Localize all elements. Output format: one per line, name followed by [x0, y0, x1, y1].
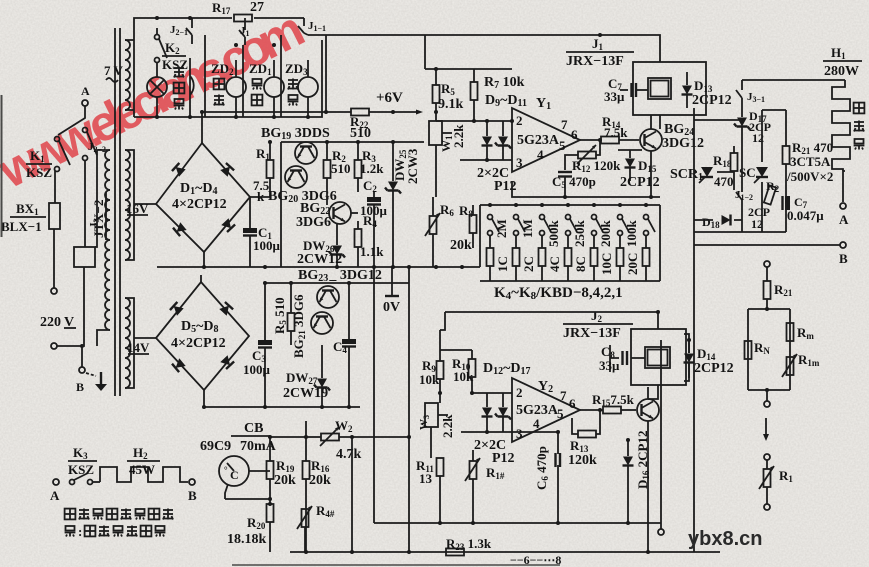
svg-text:P12: P12 [494, 179, 517, 194]
zener DW25 [385, 142, 401, 267]
relay contact J3-1 [736, 80, 765, 105]
junction 0V rail [434, 265, 438, 269]
svg-text:10k: 10k [453, 369, 474, 384]
potentiometer W3 [425, 403, 448, 458]
resistor R23 [446, 549, 464, 556]
resistor R15 [603, 407, 636, 414]
diode D14 [684, 340, 695, 378]
wire 7V winding to panel [125, 40, 134, 110]
op-amp Y2 [512, 378, 580, 442]
svg-text:3CT5A: 3CT5A [790, 154, 831, 169]
svg-text:JRX−13F: JRX−13F [563, 326, 621, 341]
diode D17 [734, 105, 750, 140]
transistor BG21a [317, 286, 339, 308]
svg-text:510: 510 [350, 126, 371, 141]
svg-text:A: A [839, 212, 849, 227]
diode D16 [623, 440, 634, 523]
svg-text:500k: 500k [546, 220, 561, 248]
svg-text:2: 2 [516, 113, 523, 128]
label 14V [127, 340, 150, 355]
op-amp Y1 [512, 108, 580, 172]
thyristor SCR1 [699, 167, 713, 183]
junction R16 top [304, 435, 308, 439]
svg-text:10C: 10C [599, 253, 614, 275]
wire bridge right vertex up [250, 197, 270, 210]
label R4 1.1k [360, 213, 384, 259]
0V rail [157, 266, 480, 268]
zener DW26 [329, 224, 345, 267]
svg-text:70mA: 70mA [240, 439, 277, 454]
label alarm (CJK) [214, 79, 225, 106]
thermometer CB [219, 456, 249, 499]
label R6 R8 20k [440, 202, 473, 253]
labels 500k 4C [546, 220, 562, 273]
lamp 7V indicator [147, 62, 167, 117]
220V upper terminal [51, 288, 57, 294]
labels 200k 10C [598, 220, 614, 276]
wire thermometer row [225, 471, 270, 499]
label D14 2CP12 [694, 346, 734, 376]
caption line1 (CJK x8) [65, 509, 173, 520]
label C2 100u [360, 178, 388, 218]
svg-text:B: B [839, 251, 848, 266]
wire bridge top to +6V rail [202, 112, 351, 143]
bridge2 diode 1 [170, 302, 184, 316]
svg-text:2CP12: 2CP12 [694, 361, 734, 376]
svg-text:4C: 4C [547, 256, 562, 272]
junction dots lower [202, 281, 769, 554]
label JTX-2 (vertical) [88, 192, 106, 240]
svg-text:ybx8.cn: ybx8.cn [688, 528, 762, 550]
right network box [748, 309, 790, 390]
bridge2 diode 2 [219, 302, 233, 316]
wire pin3 row [512, 431, 558, 433]
capacitor C7 (33u) [620, 83, 648, 97]
svg-text:2C: 2C [521, 256, 536, 272]
resistor Rn left branch [745, 341, 752, 359]
svg-text:5: 5 [557, 406, 564, 421]
indicator lamp ZD3 [298, 60, 318, 117]
label D13 2CP12 [692, 78, 732, 108]
resistor R16 [303, 437, 310, 552]
resistor Rj [764, 281, 771, 309]
svg-text:6: 6 [569, 396, 576, 411]
label H2/45W [127, 445, 160, 477]
bridge2 diode 3 [172, 358, 186, 372]
switch J2-2 on A line [83, 128, 98, 161]
svg-text:7.5k: 7.5k [604, 125, 628, 140]
svg-text:C5 470p: C5 470p [552, 174, 596, 190]
wire diode row to pin3 [461, 431, 512, 433]
indicator lamp ZD1 [264, 60, 284, 117]
scan artifact left edge [1, 95, 3, 237]
svg-text:D1~D4: D1~D4 [180, 181, 218, 197]
label W3 2.2k (vertical) [418, 414, 455, 438]
wire primary top [95, 150, 110, 247]
label R21 470 3CT5A /500Vx2 [786, 140, 833, 184]
capacitor C8 [610, 345, 627, 372]
junction at x326 [324, 110, 328, 114]
svg-text:B: B [188, 488, 197, 503]
label R22 510 [350, 114, 371, 141]
resistor R5 [433, 69, 440, 121]
labels 1M 2C [520, 219, 536, 272]
svg-text:KSZ: KSZ [68, 462, 94, 477]
svg-text:69C9: 69C9 [200, 439, 231, 454]
svg-text:D16 2CP12: D16 2CP12 [635, 431, 651, 489]
diode D15 [618, 150, 642, 181]
svg-text:4×2CP12: 4×2CP12 [172, 197, 227, 212]
svg-text:8C: 8C [573, 256, 588, 272]
svg-text:k: k [257, 189, 265, 204]
svg-text:A: A [81, 84, 90, 98]
wire x352 [350, 435, 354, 552]
scan artifact bottom line [232, 564, 560, 566]
top indicator panel outline [134, 18, 322, 117]
svg-text:1.1k: 1.1k [360, 244, 384, 259]
label K3/KSZ [68, 445, 97, 477]
heater H2 rectangular element [100, 467, 188, 482]
capacitor C3 [258, 283, 272, 407]
wire diode bottoms to pin3 [460, 159, 512, 161]
wire K1 to fuse [54, 171, 56, 203]
capacitor C6 [556, 432, 561, 523]
svg-text:1.2k: 1.2k [360, 161, 384, 176]
zener D10 [495, 121, 511, 160]
resistor R20 [764, 185, 776, 204]
diode D13 [682, 72, 693, 108]
svg-text:R7 10k: R7 10k [484, 75, 525, 91]
svg-text:100μ: 100μ [253, 238, 281, 253]
svg-text:200k: 200k [598, 220, 613, 248]
label 220V [40, 315, 76, 330]
labels 2M 1C [494, 219, 510, 272]
svg-text:5G23A: 5G23A [516, 403, 559, 418]
label DW26 2CW12 [297, 238, 342, 267]
svg-text:27: 27 [250, 0, 264, 15]
svg-text:BG19 3DDS: BG19 3DDS [261, 126, 330, 142]
label BG24 3DG12 [662, 122, 704, 151]
svg-text:JRX−13F: JRX−13F [566, 54, 624, 69]
label K2/KSZ [162, 40, 188, 72]
labels 100k 20C [624, 220, 640, 276]
wire bridge2 top [200, 275, 202, 282]
ground (dashed lead) [86, 373, 96, 376]
svg-text:7 V: 7 V [104, 63, 124, 78]
heater element H1 zigzag [832, 80, 850, 171]
label 2CP12 for D18 [748, 205, 770, 231]
svg-text:1M: 1M [520, 219, 535, 238]
svg-text:3DG12: 3DG12 [662, 136, 704, 151]
relay contact J2-1 [170, 18, 192, 44]
label R17 value 27 [212, 0, 264, 16]
thermostat switch column 2 [513, 203, 526, 281]
svg-text:P12: P12 [492, 451, 515, 466]
transformer 16V winding [125, 150, 130, 260]
arrow link [763, 418, 769, 441]
wire 14V winding to bridge2 [125, 298, 156, 388]
svg-text:2CP12: 2CP12 [620, 175, 660, 190]
svg-text:2.2k: 2.2k [440, 414, 455, 438]
wire 16V winding to bridge left [125, 150, 156, 260]
transistor BG19 [295, 142, 317, 164]
pot Rp right branch [782, 354, 797, 377]
junction right network [765, 388, 769, 392]
resistor R17 [234, 15, 252, 22]
pot R6 temp-set [425, 197, 440, 267]
junction R5 top [434, 67, 438, 71]
wire top panel right drop [325, 35, 327, 112]
label R9 10k [419, 358, 440, 387]
standalone circuit: terminal A2 [50, 479, 60, 503]
zener D13b [495, 393, 511, 432]
label 7V~ [104, 63, 124, 82]
switch K2 [155, 28, 168, 63]
thermostat switch column 3 [539, 203, 552, 281]
terminal [764, 454, 770, 460]
resistor R7 [471, 69, 478, 121]
label K1/KSZ [26, 148, 52, 180]
relay J2 wiring [445, 312, 689, 399]
svg-text:120k: 120k [568, 453, 597, 468]
heater top wire [742, 79, 845, 81]
wire A to switch K1 [58, 106, 85, 135]
+6V rail with arrow [369, 110, 423, 115]
junction dots misc [268, 33, 653, 199]
svg-text:20k: 20k [450, 238, 472, 253]
resistor R18 [731, 146, 738, 190]
cell divider wires [205, 35, 281, 117]
resistor R13 [572, 410, 600, 438]
resistor Rm right branch [787, 323, 794, 341]
capacitor C5 [558, 172, 572, 197]
svg-text:4.7k: 4.7k [336, 447, 362, 462]
svg-text:9.1k: 9.1k [438, 97, 464, 112]
pin numbers Y1 [516, 113, 578, 170]
indicator lamp ZD2 [226, 60, 246, 117]
wire bridge2 bottom rail [204, 390, 360, 407]
node A (left input terminal) [81, 84, 90, 106]
svg-text:20C: 20C [625, 253, 640, 275]
svg-text:14V: 14V [127, 340, 150, 355]
svg-text:45W: 45W [129, 462, 155, 477]
svg-text:220: 220 [40, 315, 61, 330]
wire box to bottom junction [82, 267, 84, 346]
diode D18 [722, 215, 731, 226]
svg-text:4: 4 [533, 416, 540, 431]
wire W2 column [270, 421, 306, 437]
label R16 20k [309, 458, 331, 488]
node B terminal [79, 367, 85, 373]
label 2x2CP12 lower [474, 438, 515, 466]
resistor R1 [267, 142, 274, 197]
relay J1 label JRX-13F [566, 36, 634, 69]
label R19 20k [274, 458, 296, 488]
transistor BG20 [285, 166, 307, 188]
label H1 280W [823, 45, 862, 79]
wire right vertical x409 [408, 267, 410, 552]
labels 250k 8C [572, 220, 588, 273]
svg-text:2CW3: 2CW3 [405, 148, 420, 184]
label C1 100u [253, 225, 281, 253]
capacitor C1 [243, 210, 257, 267]
comparator block bottom wire [512, 181, 660, 197]
pot R1b [759, 460, 774, 504]
svg-text:33μ: 33μ [604, 89, 625, 104]
switch K1 [55, 137, 71, 172]
thermostat bank bottom rail [480, 205, 660, 281]
0V stub [385, 267, 399, 296]
main top wire to relay J1 [308, 35, 660, 62]
label R5 9.1k [438, 81, 464, 112]
svg-text:CB: CB [244, 421, 263, 436]
capacitor C7 snubber [783, 196, 791, 210]
svg-text:2CP12: 2CP12 [692, 93, 732, 108]
resistor R11 [437, 458, 444, 523]
transistor BG25 [637, 387, 659, 552]
svg-text:33μ: 33μ [599, 358, 620, 373]
label R13 120k [568, 438, 597, 468]
snubber wires [762, 110, 786, 232]
thermostat switch column 4 [565, 203, 578, 281]
pot R4t [297, 506, 312, 552]
resistor R5b [288, 283, 295, 345]
junction dots rails [200, 110, 464, 269]
svg-text:10k: 10k [419, 372, 440, 387]
svg-text:D5~D8: D5~D8 [181, 319, 219, 335]
svg-text:250k: 250k [572, 220, 587, 248]
label R11 13 [416, 458, 434, 486]
zener DW27 [314, 345, 330, 407]
junction W2/R19 [268, 435, 272, 439]
second cluster top rail [265, 282, 409, 284]
label R14 7.5k [602, 114, 628, 140]
svg-text:BG21 3DG6: BG21 3DG6 [291, 294, 307, 358]
junction out2 [598, 408, 602, 412]
svg-text:C: C [230, 468, 239, 482]
junction [598, 138, 602, 142]
thyristor SCR2 [754, 167, 768, 183]
wire B to SCR block [694, 232, 840, 245]
terminal B2 [188, 479, 197, 503]
svg-text::: : [78, 524, 82, 539]
terminal B right [840, 242, 846, 248]
svg-text:2M: 2M [494, 219, 509, 238]
label CB 69C9 70mA [200, 421, 277, 454]
svg-text:KSZ: KSZ [26, 165, 52, 180]
thermostat switch column 6 [617, 203, 630, 281]
svg-text:20k: 20k [309, 473, 331, 488]
diode D9 [482, 121, 493, 160]
junction bottom rail [350, 550, 354, 554]
svg-text:5: 5 [559, 138, 566, 153]
label 16V [126, 201, 149, 216]
svg-text:/500V×2: /500V×2 [786, 169, 833, 184]
label DW25 2CW3 (vertical) [392, 148, 420, 184]
wire input row to opamp pin2 [436, 120, 512, 122]
svg-text:A: A [50, 488, 60, 503]
label C7 0.047u [787, 195, 824, 223]
svg-text:2CW12: 2CW12 [297, 252, 342, 267]
component box on A line [74, 247, 95, 267]
svg-text:2: 2 [516, 385, 523, 400]
thermostat switch column 5 [591, 203, 604, 281]
fuse BX1 [49, 203, 60, 229]
relay contact J1-2 [735, 185, 753, 205]
capacitor C2 [367, 192, 381, 267]
transformer 14V winding [125, 298, 130, 388]
wire opamp2 out [580, 409, 603, 411]
svg-text:C6 470p: C6 470p [534, 446, 550, 490]
transformer 7V winding [125, 40, 130, 110]
resistor R20 [267, 504, 274, 552]
terminal A right [840, 203, 846, 209]
label R20 18.18k [227, 515, 267, 547]
relay contact J1-1 [298, 18, 326, 35]
wire K-bank label row [471, 349, 473, 351]
svg-text:5G23A: 5G23A [517, 133, 560, 148]
right network top terminal [764, 261, 770, 281]
transistor BG22 [329, 202, 358, 224]
lower block left edge [374, 267, 661, 523]
bottom rail [290, 551, 720, 553]
label constant-temp (CJK) [252, 79, 263, 105]
switch K3 [70, 473, 101, 485]
amp cluster box [281, 142, 424, 267]
label BX1/BLX-1 [1, 201, 46, 234]
wire to Y2 pin2 [440, 330, 512, 393]
wire heater to terminal A [843, 171, 845, 202]
220V lower terminal [51, 343, 57, 349]
bridge2 diode 4 [220, 355, 234, 369]
resistor R2 [324, 142, 331, 205]
capacitor C4 [342, 283, 356, 407]
diode D12 [482, 393, 493, 432]
terminal [764, 504, 770, 510]
relay J2 box [631, 329, 686, 385]
transistor BG21b [311, 312, 333, 334]
svg-text:BLX−1: BLX−1 [1, 219, 42, 234]
svg-text:6: 6 [571, 127, 578, 142]
svg-text:4: 4 [537, 147, 544, 162]
wire relay J1 bottom to BG24 [659, 115, 661, 129]
junction [372, 265, 376, 269]
svg-text:7: 7 [560, 388, 567, 403]
label C3 100u [243, 348, 271, 377]
svg-text:BG23 _ 3DG12: BG23 _ 3DG12 [298, 268, 382, 284]
svg-text:4×2CP12: 4×2CP12 [171, 336, 226, 351]
svg-text:7: 7 [561, 117, 568, 132]
svg-text:0.047μ: 0.047μ [787, 208, 824, 223]
label R3 1.2k [360, 148, 384, 176]
wire primary bottom [97, 330, 110, 346]
label buzzer (3 CJK glyphs) [174, 67, 185, 110]
label BG22 3DG6 [296, 201, 331, 230]
svg-text:280W: 280W [824, 64, 859, 79]
svg-text:100k: 100k [624, 220, 639, 248]
label D17 2CP12 [749, 109, 771, 145]
bridge diode 4 [221, 218, 235, 232]
transformer primary winding [105, 150, 110, 330]
junction dots top panel [155, 16, 310, 119]
svg-text:KSZ: KSZ [162, 57, 188, 72]
resistor R3 [355, 142, 362, 192]
bridge diode 3 [173, 222, 187, 236]
pot R1t [465, 450, 480, 523]
label C7 33u [604, 76, 625, 104]
caption line2 (CJK) [65, 524, 166, 539]
pot R12 feedback [565, 140, 600, 170]
